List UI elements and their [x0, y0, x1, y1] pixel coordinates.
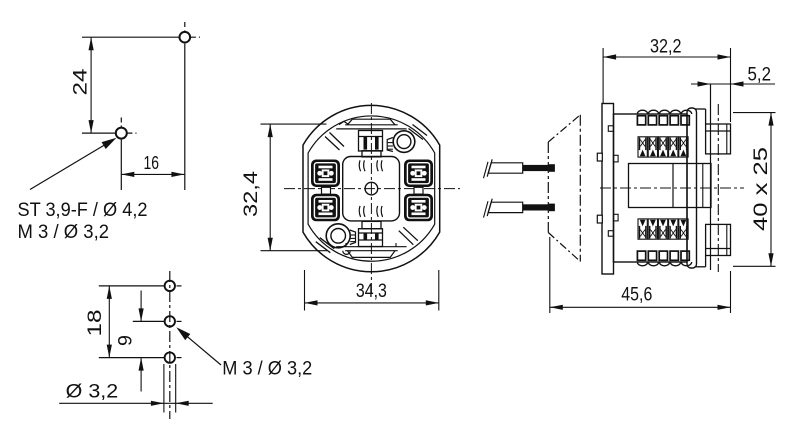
- svg-text:34,3: 34,3: [356, 280, 387, 302]
- svg-text:32,4: 32,4: [240, 171, 262, 217]
- svg-text:ST 3,9-F / Ø 4,2: ST 3,9-F / Ø 4,2: [18, 199, 148, 221]
- svg-text:M 3 / Ø 3,2: M 3 / Ø 3,2: [18, 221, 110, 243]
- svg-text:9: 9: [115, 335, 137, 346]
- svg-text:40 x 25: 40 x 25: [750, 147, 772, 231]
- svg-text:24: 24: [70, 68, 92, 95]
- svg-text:16: 16: [144, 153, 160, 173]
- svg-text:5,2: 5,2: [748, 64, 772, 86]
- svg-text:18: 18: [84, 310, 106, 337]
- svg-text:32,2: 32,2: [650, 36, 682, 58]
- svg-text:Ø 3,2: Ø 3,2: [66, 381, 119, 403]
- svg-text:45,6: 45,6: [621, 284, 652, 306]
- svg-text:M 3 / Ø 3,2: M 3 / Ø 3,2: [222, 358, 312, 380]
